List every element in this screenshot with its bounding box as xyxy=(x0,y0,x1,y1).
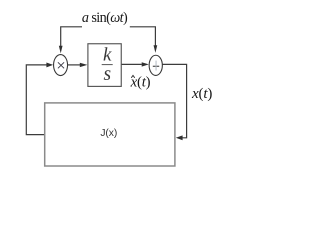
svg-text:k: k xyxy=(103,44,112,65)
svg-text:x(t): x(t) xyxy=(191,86,212,102)
svg-text:J(x): J(x) xyxy=(100,128,117,139)
svg-text:s: s xyxy=(104,64,112,85)
svg-text:x(t): x(t) xyxy=(130,75,151,91)
svg-text:a sin(ωt): a sin(ωt) xyxy=(82,10,128,26)
